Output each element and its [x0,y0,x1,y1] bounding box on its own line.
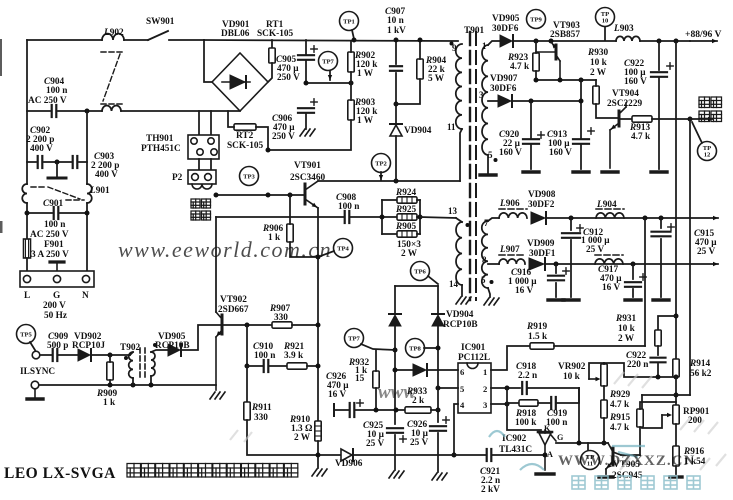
test point TP2 [372,154,391,173]
resistor R910 [315,421,321,441]
wire C912 branch [570,218,572,230]
svg-text:160 V: 160 V [499,148,522,158]
wire C918 to right [527,387,579,389]
wire TH901 drop 1 [198,111,200,135]
capacitor C901 [54,207,59,219]
wire VT904 to R913 [621,118,632,120]
node R929/base [602,441,607,446]
resistor R914 [673,359,679,377]
svg-text:www.eeworld.com.cn: www.eeworld.com.cn [118,237,332,262]
svg-text:4.7 k: 4.7 k [631,132,651,142]
T902 core dashes [140,348,145,380]
polarity dot pin5 [494,158,498,162]
svg-text:4.7 k: 4.7 k [510,62,530,72]
wire lower 5 to ground [488,288,490,297]
svg-text:G: G [557,433,564,442]
ground of VT902 emitter [210,392,225,399]
wire SW901 to bridge rectifier AC node [169,39,204,41]
ground of secondary 7-8-5 [484,298,499,305]
svg-text:11: 11 [447,122,456,132]
wire VT901 collector to T901 pin11 [318,180,460,182]
core dash of L905 [595,254,623,256]
node R931 feed tap [643,216,648,221]
svg-text:25 V: 25 V [586,245,604,255]
inductor L907 [499,259,525,264]
bridge rectifier VD901 diamond [212,53,268,111]
wire R907 to emitter line [292,324,318,326]
transformer T901 secondary winding 1-3-5 [482,45,488,155]
wire R903 top lead [350,83,352,100]
wire C910 to R921 [269,365,287,367]
P2 pin circle a [192,174,199,181]
capacitor C905 [298,46,317,60]
node TP1 on rail [352,38,357,43]
wire VD907 output [512,100,581,102]
wire C921 to TL431 anode [492,454,545,456]
wire ILSYNC to C909 [40,354,52,356]
inductor L906 [499,213,527,218]
svg-text:30DF6: 30DF6 [492,24,519,34]
wire R911 branch [246,325,248,366]
ground of C913 [573,170,589,173]
wire degauss lower to C908 [216,216,344,218]
wire C917 to ground [632,289,634,297]
test point TP10 [596,8,615,27]
svg-text:+88/96 V: +88/96 V [685,29,722,40]
svg-text:2.2 n: 2.2 n [518,371,538,381]
capacitor C912 [562,225,583,238]
capacitor C903 [73,156,78,168]
wire R906 bottom lead [290,242,318,257]
wire F901 to connector [26,258,28,271]
svg-text:R919: R919 [526,322,548,332]
TP8 pointer wire [424,347,438,349]
node bank right [418,215,423,220]
wire T902 primary top [130,352,133,355]
node R933 right [436,408,441,413]
resistor R909 [107,362,113,380]
svg-text:100 n: 100 n [44,220,66,230]
terminal circle ILSYNC return [31,381,39,389]
wire VT903 collector bus [536,79,596,81]
svg-text:PTH451C: PTH451C [141,144,181,154]
svg-text:VD909: VD909 [527,239,555,249]
capacitor C918 [522,382,527,394]
diode VD902 RCP10J [78,349,91,361]
wire TH901 drop 2 [210,111,212,135]
svg-text:500 p: 500 p [47,341,68,351]
wire R932 bottom lead [375,388,377,410]
wire R930 top lead [595,80,597,86]
wire AC drop to bridge left corner [204,40,212,82]
test point TP9 [527,10,546,29]
label degauss coil chinese xian-quan [191,211,211,220]
node R909 bottom [108,383,113,388]
svg-text:2 W: 2 W [401,249,418,259]
svg-text:DBL06: DBL06 [221,29,250,39]
svg-text:5 W: 5 W [428,74,445,84]
svg-text:8: 8 [482,255,487,265]
fuse F901 [24,239,31,258]
wire C926 470u left lead [334,409,349,411]
svg-text:2 kV: 2 kV [481,485,500,495]
wire degauss vertical to VT902 [215,217,217,312]
svg-text:220 n: 220 n [627,360,649,370]
svg-text:1 k: 1 k [103,398,116,408]
svg-text:1 W: 1 W [357,69,374,79]
node VD904 anode on pin11 wire [394,179,399,184]
node R923 bottom [534,78,539,83]
wire C907 top lead [395,40,397,64]
node base wire R903 branch [266,193,271,198]
svg-text:7: 7 [484,218,489,228]
svg-text:10 k: 10 k [590,58,608,68]
wire VR902 node to divider [604,363,658,377]
wire R915 bottom lead [639,427,641,455]
connector P2 box [188,170,216,184]
wire pin5 link [438,387,458,389]
capacitor C920 [523,132,544,144]
wire midpoint earth stub [56,162,58,176]
TH901 pin circle d [211,149,217,155]
TP4 pointer wire [318,251,334,257]
ground of R916 [670,475,682,478]
wire ILSYNC return bus [39,384,216,386]
svg-text:T901: T901 [464,26,484,36]
test point TP1 [340,12,359,31]
wire T902 primary bottom [132,378,134,385]
capacitor C908 [345,211,350,223]
svg-text:5: 5 [460,384,464,394]
capacitor C917 [625,274,646,287]
node C907/R904 bottom [394,102,399,107]
svg-text:RCP10J: RCP10J [72,341,105,351]
svg-text:100 n: 100 n [46,86,68,96]
ground of secondary 5 [480,173,496,176]
node RT2/R903 [266,148,271,153]
node R914 top branch [674,314,679,319]
wire C902 to ground stub [44,161,71,163]
svg-text:30DF1: 30DF1 [529,249,556,259]
arrow mode control output [690,117,713,121]
core of L901 (dashed) [31,187,84,200]
label degauss coil chinese xiao-ci [191,199,211,208]
label mode chinese kong-zhi [699,111,722,122]
svg-text:K: K [544,424,551,433]
svg-text:www: www [378,382,416,403]
test point TP8 [406,339,425,358]
svg-text:R931: R931 [615,314,637,324]
wire C901 row [27,212,52,214]
svg-text:VD908: VD908 [528,190,556,200]
diode VD909 30DF1 [529,258,545,270]
capacitor C926b [430,417,449,431]
inductor L901 right winding [87,184,92,203]
svg-text:R911: R911 [251,403,272,413]
resistor R930 [593,86,599,104]
svg-text:TP6: TP6 [414,268,426,275]
resistor R919 [530,343,554,349]
wire RT1 top lead [271,40,273,48]
bus stub R905 right [417,233,420,235]
wire C901 right [60,212,87,214]
resistor R911 [244,402,250,420]
wire L902 lower to bridge AC2 [121,110,240,112]
svg-text:L904: L904 [596,200,617,210]
node bank left [380,215,385,220]
svg-text:10 k: 10 k [563,372,581,382]
wire RP901 to R916 [675,424,677,446]
transformer T901 primary winding 9-11 [456,44,462,129]
inductor L902 lower winding [102,106,121,111]
connector pin N [82,275,89,282]
wire VT902 base bus [223,324,272,326]
polarity dot pin13 [466,223,470,227]
thermistor RT2 [234,124,256,130]
capacitor C926 470u [350,400,364,417]
resistor R902 [348,52,354,72]
svg-text:LEO LX-SVGA: LEO LX-SVGA [4,465,116,482]
watermark teal glyph row [572,476,700,489]
svg-text:TH901: TH901 [146,134,174,144]
wire pin7 lead [488,218,499,221]
resistor R915 [637,409,643,427]
TP6 pointer wire [428,276,438,284]
switch SW901 blade [148,31,168,40]
ground of C920 [523,170,539,173]
core dash of L907 [499,254,525,256]
svg-text:25 V: 25 V [366,439,384,449]
wire C922 100u to ground [658,78,660,169]
wire C916 branch [555,264,557,273]
node TP8 junction [436,346,441,351]
VR902 wiper arrow [589,377,601,381]
svg-text:L906: L906 [499,199,520,209]
inductor L903 [616,36,640,41]
resistor R925 [397,214,417,220]
svg-text:SW901: SW901 [146,17,175,27]
node R904 on rail [418,38,423,43]
svg-text:R929: R929 [609,390,631,400]
watermark teal marks [489,431,645,470]
wire bank to T901 pin13 [420,217,456,218]
test point TP7 upper [319,52,338,71]
capacitor C907 [390,66,402,71]
svg-text:VT902: VT902 [220,295,247,305]
wire C925 to ground [394,435,396,470]
svg-text:330: 330 [274,313,288,323]
polarity dot pin9 [450,42,454,46]
svg-text:100 n: 100 n [254,351,276,361]
node R909 top [108,353,113,358]
svg-text:100 k: 100 k [515,418,537,428]
node T902 secondary bottom [149,383,154,388]
capacitor C910 [264,360,269,372]
wire C905 top lead [305,40,307,55]
shunt regulator IC902 TL431C [538,430,556,470]
ground of C917 [625,298,641,301]
svg-text:25 V: 25 V [697,247,715,257]
inductor L904 [596,213,624,218]
wire C919 right lead [556,388,579,403]
svg-text:VD907: VD907 [490,74,518,84]
capacitor C926 470u lead tick [333,404,335,416]
wire pin4 drop [454,404,458,455]
node C920 tap [529,99,534,104]
resistor R905 [397,231,417,237]
wire R903 bottom to base [268,120,351,150]
node emitter/R906 junction [316,255,321,260]
core dash of L906 [499,208,527,210]
wire left rail below L901 [26,203,28,239]
wire R904 top lead [419,40,421,59]
capacitor C921 [487,449,492,461]
wire VR902 wiper to top [589,363,604,379]
wire C902 row [27,161,36,163]
wire top AC rail from mains filter to bridge [27,39,102,41]
arrow +25V output [690,216,718,220]
node TL431 anode [543,453,548,458]
node base wire R906 branch [288,193,293,198]
test point TP3 [240,167,259,186]
test point TP7 lower [345,329,364,348]
svg-text:30DF6: 30DF6 [490,84,517,94]
connector pin L [23,275,30,282]
svg-text:3 A 250 V: 3 A 250 V [31,250,69,260]
TP10 pointer wire [604,27,606,40]
svg-text:R914: R914 [689,359,711,369]
wire right AC vertical rail [86,111,88,184]
svg-text:400 V: 400 V [95,170,118,180]
node R907 right [316,323,321,328]
wire R915 top lead [640,402,676,409]
svg-text:AC 250 V: AC 250 V [28,96,67,106]
wire C920 to ground [530,145,532,169]
resistor bank right bus [419,200,421,234]
wire pin1 to R919 [491,346,530,370]
wire rail over bridge [204,40,458,41]
svg-text:L: L [24,291,30,301]
svg-text:400 V: 400 V [30,144,53,154]
optocoupler IC901 PC112L box [458,363,491,413]
svg-text:VD905: VD905 [492,14,520,24]
wire VD902 to T902 [91,354,130,356]
node C902/C903 midpoint [55,160,60,165]
arrow +88/96V output [690,39,717,43]
node TP7 junction [393,348,398,353]
node R902/R903 junction [349,81,354,86]
diode at pin6 [413,364,427,376]
node C901 left [25,211,30,216]
polarity dot T902 secondary [124,356,128,360]
wire C916 to ground [555,283,557,297]
node C917 tap [631,262,636,267]
svg-text:PC112L: PC112L [458,353,490,363]
wire R906 top lead [289,195,291,224]
wire C909 to VD902 [58,354,78,356]
svg-text:4.7 k: 4.7 k [610,423,630,433]
svg-text:160 V: 160 V [624,77,647,87]
node C910 left [245,364,250,369]
wire C905/C906 to R902 bottom [306,82,351,84]
watermark gray hatch bottom right [230,372,726,470]
bridge inner diode symbol [222,75,250,89]
wire TH901 to P2 link b [210,159,212,170]
wire mode to RP901 node [642,394,690,396]
svg-text:160 V: 160 V [549,148,572,158]
svg-text:4: 4 [460,400,465,410]
bus stub R924 right [417,199,420,201]
core dash of L904 [596,208,624,210]
capacitor C902 [38,156,43,168]
svg-text:TL431C: TL431C [499,445,532,455]
wire C907 bottom lead [395,73,397,124]
node VD907/C913 [579,99,584,104]
P2 pin circle b [205,174,212,181]
svg-text:5: 5 [481,275,486,285]
diode VD905 30DF6 [500,35,513,47]
wire C913 branch vertical [580,80,582,138]
wire C926b to ground [437,433,439,472]
wire TH901 to P2 link a [198,159,200,170]
node pin3 [505,402,510,407]
capacitor C904 [52,105,57,117]
polarity dot lower 5 [490,280,494,284]
wire pin3 [491,403,507,405]
RP901 wiper arrow [662,413,672,417]
svg-text:56 k2: 56 k2 [690,369,712,379]
svg-text:16 V: 16 V [328,390,346,400]
wire L902 to switch SW901 [124,39,148,41]
node pin6/snubber [393,368,398,373]
svg-text:RT2: RT2 [236,131,254,141]
resistor R921 [287,363,307,369]
capacitor C909 [53,349,58,361]
transistor VT901 2SC3460 [305,181,318,208]
wire C905 bottom lead [305,60,307,83]
wire C908 to resistor bank [350,216,382,218]
resistor R913 [632,116,652,122]
diode VD906 [341,449,353,461]
ground of TL431 [536,472,554,475]
wire R911 top lead [246,366,248,402]
node C905 bottom [304,81,309,86]
wire K feed [507,404,541,430]
svg-text:VT901: VT901 [294,161,321,171]
arrow +16V output [690,262,718,266]
svg-text:250 V: 250 V [277,73,300,83]
capacitor C922 100u [651,63,673,77]
wire C913 to ground [580,145,582,169]
wire R902 bottom lead [350,72,352,83]
transistor VT903 2SB857 [536,42,560,80]
svg-text:25 V: 25 V [410,438,428,448]
connector pin G [53,275,60,282]
thermistor RT1 [269,48,275,63]
terminal circle ILSYNC hot [32,351,40,359]
inductor L901 left winding [22,184,27,203]
resistor R929 [601,400,607,418]
svg-text:TP7: TP7 [322,58,334,65]
label mode chinese mo-shi [699,97,722,108]
wire C906 bottom lead [305,113,307,129]
wire R909 bottom lead [109,380,111,385]
svg-text:RCP10B: RCP10B [443,320,478,330]
node C922 100u tap [657,39,662,44]
resistor R918 [519,400,538,406]
capacitor C906 [298,99,317,113]
svg-text:13: 13 [448,206,458,216]
